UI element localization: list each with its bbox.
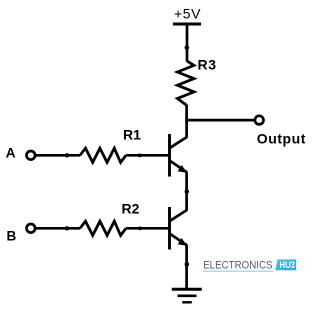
svg-text:R1: R1	[123, 127, 141, 143]
svg-text:A: A	[6, 146, 16, 161]
svg-text:+5V: +5V	[174, 5, 201, 21]
svg-text:ELECTRONICS: ELECTRONICS	[203, 259, 272, 271]
svg-text:R3: R3	[198, 56, 217, 72]
svg-text:R2: R2	[122, 201, 140, 217]
svg-text:B: B	[7, 229, 17, 244]
svg-text:HU3: HU3	[280, 260, 296, 270]
svg-text:Output: Output	[257, 131, 306, 147]
